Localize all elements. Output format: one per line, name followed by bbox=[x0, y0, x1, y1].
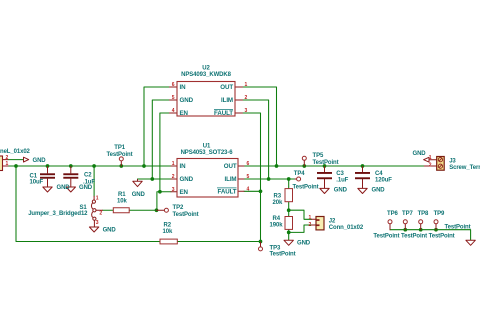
svg-text:GND: GND bbox=[132, 192, 146, 198]
svg-text:1: 1 bbox=[309, 215, 312, 221]
testpoint TP3 labels bbox=[270, 245, 296, 257]
wire U2 ILIM path bbox=[243, 100, 269, 179]
ground below C3 bbox=[320, 188, 329, 193]
capacitor C2 labels bbox=[83, 172, 95, 185]
svg-text:TestPoint: TestPoint bbox=[270, 252, 296, 258]
svg-text:2: 2 bbox=[309, 222, 312, 228]
op-amp U1 reference labels bbox=[181, 144, 234, 157]
node junction R4/GND/J2 bbox=[287, 231, 291, 235]
node junction TP5/bus bbox=[302, 164, 306, 168]
wire S1 to R1 bbox=[103, 209, 114, 211]
node junction U2-OUT/bus bbox=[275, 164, 279, 168]
wire U2 EN path bbox=[160, 113, 170, 192]
wire U2 OUT path bbox=[243, 87, 277, 166]
svg-text:20k: 20k bbox=[273, 200, 283, 206]
connector J3 pin numbers bbox=[429, 155, 432, 168]
op-amp U2 body bbox=[177, 82, 235, 117]
capacitor C1 leads bbox=[47, 167, 49, 187]
svg-text:120uF: 120uF bbox=[375, 178, 392, 184]
svg-text:TestPoint: TestPoint bbox=[373, 233, 399, 239]
wire FAULT vertical U2 pin3 bbox=[243, 113, 261, 242]
svg-text:GND: GND bbox=[33, 158, 47, 164]
resistor R4 labels bbox=[270, 216, 284, 228]
jumper S1 pin1 stub bbox=[93, 196, 95, 200]
node junction C3/bus bbox=[323, 164, 327, 168]
jumper S1 labels bbox=[28, 205, 88, 217]
svg-text:TestPoint: TestPoint bbox=[401, 233, 427, 239]
wire R2 right to fault corner bbox=[177, 241, 260, 243]
node junction TP7 bbox=[403, 228, 407, 232]
testpoint TP4 stem bbox=[295, 178, 297, 180]
svg-text:GND: GND bbox=[372, 187, 386, 193]
testpoint TP5 labels bbox=[313, 153, 339, 166]
svg-text:R3: R3 bbox=[274, 193, 282, 199]
svg-text:TestPoint: TestPoint bbox=[445, 224, 471, 230]
op-amp U2 FAULT overline bbox=[214, 109, 233, 111]
wire VOUT bus right bbox=[244, 165, 424, 167]
connector J3 pin stubs bbox=[424, 160, 437, 166]
svg-text:Screw_Termin: Screw_Termin bbox=[449, 165, 480, 171]
testpoint TP4 labels bbox=[293, 171, 319, 190]
node junction C1/bus bbox=[46, 164, 50, 168]
op-amp U1 pin numbers bbox=[172, 161, 250, 193]
ground flag at J3 pin1 bbox=[424, 157, 429, 162]
testpoint TP5 bbox=[302, 156, 306, 160]
svg-text:1: 1 bbox=[172, 161, 175, 167]
svg-text:FAULT: FAULT bbox=[218, 188, 237, 195]
testpoint TP3 bbox=[259, 247, 263, 251]
svg-text:TestPoint: TestPoint bbox=[293, 185, 319, 191]
testpoint TP7 bbox=[403, 220, 407, 224]
svg-text:2: 2 bbox=[172, 174, 175, 180]
svg-text:R1: R1 bbox=[118, 192, 126, 198]
svg-text:TP8: TP8 bbox=[418, 211, 429, 217]
svg-text:190k: 190k bbox=[270, 222, 284, 228]
op-amp U2 pin stubs right (1,2,3) bbox=[235, 87, 243, 113]
testpoint TP3 stem bbox=[260, 242, 262, 247]
connector J2 body bbox=[316, 217, 324, 230]
ground below C1 bbox=[43, 187, 52, 192]
connector J3 body (screw terminal) bbox=[437, 157, 445, 171]
svg-text:C4: C4 bbox=[375, 171, 383, 177]
wire VIN bus left bbox=[8, 165, 171, 167]
wire J2 pin2 branch bbox=[289, 225, 312, 232]
resistor R2 bbox=[160, 239, 177, 244]
wire R3 top branch bbox=[288, 179, 290, 189]
svg-text:GND: GND bbox=[180, 97, 194, 104]
svg-text:J3: J3 bbox=[449, 159, 456, 165]
node junction U2-GND row bbox=[150, 177, 154, 181]
testpoint TP8 stem bbox=[420, 224, 422, 230]
svg-text:GND: GND bbox=[334, 187, 348, 193]
svg-text:TP6: TP6 bbox=[387, 211, 398, 217]
svg-text:2: 2 bbox=[429, 162, 432, 168]
wire U2 GND path bbox=[152, 100, 169, 179]
svg-text:GND: GND bbox=[57, 185, 71, 191]
svg-text:4: 4 bbox=[247, 187, 250, 193]
connector J2 pin numbers bbox=[309, 215, 312, 228]
svg-text:1: 1 bbox=[6, 161, 9, 167]
node junction C2/bus bbox=[69, 164, 73, 168]
svg-text:EN: EN bbox=[180, 110, 189, 117]
wire U2 IN path bbox=[144, 87, 170, 166]
svg-text:TP9: TP9 bbox=[434, 211, 445, 217]
capacitor C3 leads bbox=[324, 167, 326, 189]
svg-text:5: 5 bbox=[172, 95, 175, 101]
testpoint TP6 bbox=[388, 220, 392, 224]
testpoint TP2 labels bbox=[173, 205, 199, 218]
node junction J1 drop bbox=[14, 164, 18, 168]
svg-text:TP7: TP7 bbox=[402, 211, 413, 217]
connector J1 pin stubs bbox=[2, 160, 8, 166]
svg-text:C2: C2 bbox=[84, 172, 92, 178]
svg-text:OUT: OUT bbox=[220, 84, 233, 91]
svg-text:1: 1 bbox=[245, 82, 248, 88]
svg-text:GND: GND bbox=[103, 228, 117, 234]
wire U1 GND row bbox=[138, 178, 172, 180]
wire ILIM row bbox=[244, 178, 295, 180]
svg-text:R4: R4 bbox=[273, 216, 281, 222]
capacitor C3 bbox=[317, 172, 332, 179]
svg-text:R2: R2 bbox=[164, 222, 172, 228]
node junction TP8 bbox=[419, 228, 423, 232]
capacitor C2 leads bbox=[70, 167, 72, 187]
svg-text:10uF: 10uF bbox=[30, 180, 44, 186]
capacitor C4 labels bbox=[375, 171, 392, 183]
op-amp U2 pin stubs left (6,5,4) bbox=[170, 87, 178, 113]
ground flag at J1 pin2 bbox=[24, 157, 29, 162]
node junction U2-IN/bus bbox=[142, 164, 146, 168]
wire S1 drop from bus bbox=[93, 166, 95, 196]
op-amp U2 pin numbers bbox=[172, 82, 248, 114]
svg-text:GND: GND bbox=[180, 176, 194, 183]
resistor R3 bbox=[285, 189, 293, 202]
node junction U2-ILIM row bbox=[267, 177, 271, 181]
connector J1 labels bbox=[0, 149, 31, 167]
svg-text:GND: GND bbox=[413, 151, 427, 157]
svg-text:U1: U1 bbox=[203, 144, 211, 150]
svg-text:6: 6 bbox=[172, 82, 175, 88]
svg-text:.1uF: .1uF bbox=[336, 178, 348, 184]
node junction R3/R4/J2 bbox=[287, 208, 291, 212]
node junction R2/TP3 bbox=[259, 240, 263, 244]
svg-text:ILIM: ILIM bbox=[221, 97, 233, 104]
node junction TP1/bus bbox=[119, 164, 123, 168]
svg-text:IN: IN bbox=[180, 163, 187, 170]
svg-text:1: 1 bbox=[96, 196, 99, 202]
svg-text:GND: GND bbox=[79, 185, 93, 191]
op-amp U1 body bbox=[177, 159, 238, 198]
op-amp U2 reference labels bbox=[181, 66, 231, 79]
testpoint TP5 stem bbox=[303, 160, 305, 166]
svg-text:C3: C3 bbox=[336, 171, 344, 177]
svg-text:IN: IN bbox=[180, 84, 187, 91]
connector J1 body bbox=[0, 156, 3, 171]
svg-text:4: 4 bbox=[172, 108, 175, 114]
ground below C4 bbox=[358, 188, 367, 193]
svg-text:TP2: TP2 bbox=[173, 205, 184, 211]
svg-text:TestPoint: TestPoint bbox=[173, 212, 199, 218]
svg-text:5: 5 bbox=[247, 174, 250, 180]
capacitor C4 leads bbox=[362, 167, 364, 189]
wire J1 pin2 to GND flag bbox=[8, 159, 24, 161]
wire U1 EN to R1 bbox=[157, 192, 171, 211]
svg-text:NPS4093_KWDK8: NPS4093_KWDK8 bbox=[181, 72, 231, 78]
svg-text:TP5: TP5 bbox=[313, 153, 324, 159]
ground below R4 bbox=[284, 240, 293, 245]
testpoint TP6 stem bbox=[389, 224, 391, 230]
testpoint TP2 bbox=[164, 208, 168, 212]
svg-text:EN: EN bbox=[180, 189, 189, 196]
svg-text:2: 2 bbox=[6, 155, 9, 161]
jumper S1 pin3 stub bbox=[93, 220, 95, 226]
node junction C4/bus bbox=[361, 164, 365, 168]
capacitor C1 labels bbox=[30, 173, 44, 185]
node junction R3/ILIM row bbox=[287, 177, 291, 181]
ground at testpoint row bbox=[466, 240, 475, 245]
resistor R1 bbox=[113, 208, 129, 213]
node junction TP9 bbox=[434, 228, 438, 232]
testpoint TP7 stem bbox=[404, 224, 406, 230]
testpoint TP9 bbox=[434, 220, 438, 224]
svg-text:10k: 10k bbox=[163, 229, 173, 235]
ground below C2 bbox=[66, 187, 75, 192]
op-amp U1 pin stubs right (6,5,4) bbox=[238, 166, 244, 191]
svg-text:TestPoint: TestPoint bbox=[313, 160, 339, 166]
op-amp U1 pin stubs left (1,2,3) bbox=[171, 166, 177, 192]
jumper S1 pin2 stub bbox=[96, 209, 102, 211]
ground U1 GND net bbox=[133, 179, 142, 187]
jumper S1 pin numbers bbox=[96, 196, 103, 226]
resistor R1 labels bbox=[117, 192, 127, 205]
svg-text:FAULT: FAULT bbox=[214, 110, 233, 117]
testpoint TP6-TP8 value labels bbox=[373, 233, 454, 239]
testpoint TP1 labels bbox=[107, 145, 133, 158]
testpoint TP4 bbox=[297, 177, 301, 181]
svg-text:C1: C1 bbox=[30, 173, 38, 179]
wire U1 FAULT link bbox=[244, 190, 261, 192]
svg-text:Conn_01x02: Conn_01x02 bbox=[329, 225, 364, 231]
svg-text:TP4: TP4 bbox=[294, 171, 305, 177]
capacitor C2 bbox=[63, 173, 78, 178]
svg-text:TestPoint: TestPoint bbox=[107, 152, 133, 158]
resistor R3 labels bbox=[273, 193, 283, 206]
svg-text:Jumper_3_Bridged12: Jumper_3_Bridged12 bbox=[28, 211, 88, 217]
svg-text:NPS4053_SOT23-6: NPS4053_SOT23-6 bbox=[181, 150, 234, 156]
svg-text:TestPoint: TestPoint bbox=[429, 233, 455, 239]
op-amp U1 FAULT overline bbox=[217, 187, 237, 189]
svg-text:3: 3 bbox=[172, 187, 175, 193]
wire J2 pin1 branch bbox=[289, 210, 312, 219]
resistor R2 labels bbox=[163, 222, 173, 235]
capacitor C3 labels bbox=[336, 171, 348, 183]
svg-text:2: 2 bbox=[245, 95, 248, 101]
wire R4 bottom bbox=[288, 229, 290, 240]
svg-text:ILIM: ILIM bbox=[225, 176, 237, 183]
node junction U2-EN row bbox=[158, 190, 162, 194]
node junction S1/bus bbox=[92, 164, 96, 168]
svg-text:6: 6 bbox=[247, 161, 250, 167]
op-amp U2 pin names bbox=[180, 84, 234, 117]
ground below S1 pin3 bbox=[89, 227, 98, 232]
jumper S1 bbox=[91, 200, 96, 220]
testpoint TP9 stem bbox=[435, 224, 437, 230]
svg-text:3: 3 bbox=[96, 220, 99, 226]
connector J2 pin stubs bbox=[312, 219, 317, 225]
connector J3 labels bbox=[449, 159, 480, 171]
wire R1 right bbox=[129, 209, 157, 211]
resistor R4 bbox=[285, 217, 293, 230]
capacitor C1 bbox=[40, 173, 55, 178]
svg-text:J2: J2 bbox=[329, 218, 336, 224]
svg-text:GND: GND bbox=[297, 241, 311, 247]
svg-text:3: 3 bbox=[245, 108, 248, 114]
testpoint TP1 bbox=[119, 157, 123, 161]
testpoint TP8 bbox=[419, 220, 423, 224]
svg-text:10k: 10k bbox=[117, 199, 127, 205]
capacitor C4 bbox=[355, 172, 370, 179]
op-amp U1 pin names bbox=[180, 163, 237, 196]
node junction R1/TP2 bbox=[155, 208, 159, 212]
svg-text:1: 1 bbox=[429, 155, 432, 161]
wire R3-R4 link bbox=[288, 202, 290, 217]
testpoint TP2 stem bbox=[157, 209, 165, 211]
node junction FAULT row bbox=[259, 189, 263, 193]
svg-text:TP3: TP3 bbox=[270, 245, 281, 251]
testpoint TP1 stem bbox=[120, 161, 122, 166]
svg-text:TP1: TP1 bbox=[114, 145, 125, 151]
svg-text:U2: U2 bbox=[202, 66, 210, 72]
svg-text:2: 2 bbox=[99, 211, 102, 217]
wire left drop to R2 row bbox=[16, 166, 160, 242]
connector J2 labels bbox=[329, 218, 364, 231]
wire testpoint row TP6-TP9 bbox=[390, 230, 471, 241]
svg-text:OUT: OUT bbox=[224, 163, 237, 170]
